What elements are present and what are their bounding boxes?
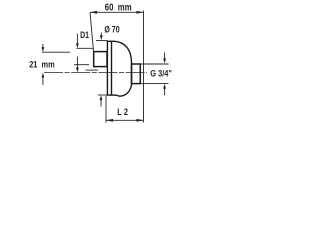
dim 21mm bottom arrow [42,77,44,86]
body collar inner line [111,41,113,95]
dim 21mm top extension line [42,51,70,53]
dim 60mm left extension line [90,12,93,48]
dim 21mm top arrow [42,44,44,48]
dim L2 left arrow [106,119,113,122]
left stub port [94,52,107,67]
dim dia70 top arrow [100,33,102,37]
right stub port [132,64,141,84]
dim 60mm left arrow [90,11,97,14]
dim 60mm right arrow [137,11,144,14]
dim G3/4 top arrow [164,53,166,60]
dim D1 bottom stem [76,57,78,69]
dim 60mm line [90,11,144,13]
dim D1 top extension line [76,47,93,49]
dim dia70 bottom arrow [100,100,102,107]
dim L2 right arrow [137,119,144,122]
center line [44,71,147,73]
dim 60mm right extension line [143,11,145,123]
body right tangent edge [131,62,133,86]
body left face [106,41,108,95]
dim dia70 top extension line [96,40,107,42]
dim D1 bottom reference line [86,69,99,71]
svg-text:D1: D1 [80,30,89,40]
svg-text:L 2: L 2 [117,106,128,117]
dim L2 line [106,119,144,121]
dim dia70 bottom extension line [98,94,108,96]
body bottom-right arc [117,85,132,96]
svg-text:G 3/4": G 3/4" [150,67,172,78]
svg-text:60 mm: 60 mm [105,2,132,13]
svg-text:21 mm: 21 mm [29,58,55,69]
body top-right volute arc [115,41,132,62]
dim D1 top arrow [76,34,78,45]
body top edge [107,40,115,42]
dim D1 bottom arrow [76,68,79,73]
svg-text:Ø 70: Ø 70 [104,24,120,34]
dim D1 lower extension line [74,64,89,66]
dim G3/4 top extension line [141,63,168,65]
body bottom edge [107,94,118,96]
dim G3/4 bottom arrow [164,89,166,96]
dim G3/4 bottom extension line [141,83,168,85]
dim L2 left extension line [105,96,107,123]
left stub face link line [92,49,94,52]
